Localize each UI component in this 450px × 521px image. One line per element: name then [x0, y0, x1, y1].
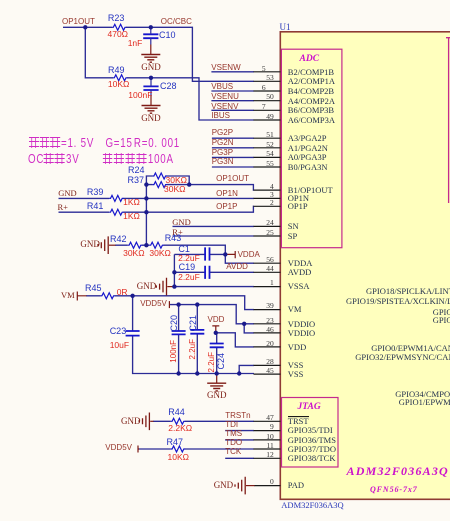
gnd text VSSA: [137, 282, 157, 291]
junction 178.6,373.5: [176, 371, 180, 375]
designator C1: [178, 245, 190, 254]
ground rot R42: [98, 236, 108, 254]
designator C19: [179, 263, 196, 272]
wire OP1P row: [59, 206, 255, 212]
junction 197.3,373.5: [195, 371, 199, 375]
IC U1 body: [280, 32, 450, 500]
junction 174.4,286.6: [172, 284, 176, 288]
wire PG3N: [212, 166, 254, 168]
power bar VDD5V: [168, 301, 170, 308]
pin 5 B2/COMP1B: [254, 71, 281, 73]
ADC section box: [281, 49, 342, 248]
pin 11 GPIO37/TDO: [254, 448, 281, 450]
ground rot PAD: [235, 477, 245, 495]
wire OP1N row: [59, 197, 255, 199]
net label VSENU: [211, 93, 239, 101]
wire VSENV: [211, 109, 254, 111]
net label AVDD: [226, 263, 248, 271]
net label OP1N: [216, 190, 238, 198]
wire OP1OUT to pin4: [189, 185, 254, 191]
wire Rplus to SP: [173, 235, 255, 237]
pin 2 OP1P: [254, 205, 281, 207]
power bar VDD: [212, 326, 219, 333]
junction 174.4,272.3: [172, 270, 176, 274]
gnd lead PAD: [246, 485, 255, 487]
power bar VDD5V lower: [138, 446, 139, 453]
value 30Kohm d: [149, 249, 170, 258]
gnd lead C10: [150, 27, 152, 44]
net label TMS: [225, 430, 242, 438]
designator C21 rot: [189, 315, 198, 332]
ground earth C28: [142, 106, 161, 114]
part type QFN56-7x7: [370, 486, 418, 494]
junction 146.4,245.2: [144, 243, 148, 247]
pin 44 AVDD: [254, 271, 281, 273]
net label Rplus sp: [172, 228, 182, 237]
gnd lead VSSA: [167, 286, 174, 288]
ground rot R44: [139, 413, 149, 431]
junction 146.4,212.2: [144, 210, 148, 214]
value 2.2Kohm: [168, 424, 192, 433]
pin 0 PAD: [254, 485, 280, 487]
wire PG3P: [212, 156, 254, 158]
value 30Kohm b: [164, 185, 185, 194]
junction 150.8,27.3: [149, 25, 153, 29]
designator R39: [87, 188, 104, 197]
designator R49: [108, 66, 125, 75]
resistor R37: [153, 182, 167, 188]
pin 51 A3/PGA2P: [254, 137, 281, 139]
net label TRSTn: [225, 412, 250, 420]
resistor R41: [109, 209, 123, 215]
resistor R47: [171, 446, 185, 452]
value 100nF rot: [170, 340, 178, 363]
gnd lead C10 red: [150, 45, 152, 55]
section title JTAG: [298, 403, 321, 413]
resistor R43: [149, 242, 163, 248]
gnd lead R42: [109, 244, 116, 246]
wire TMS: [225, 439, 254, 441]
wire R24 loop: [146, 176, 189, 185]
net label OC/CBC: [161, 18, 192, 26]
wire C19 AVDD row: [174, 271, 254, 273]
net label PG2N: [212, 139, 234, 147]
value 1Kohm a: [123, 198, 140, 207]
value 10Kohm lower: [168, 453, 189, 462]
designator R47: [167, 438, 184, 447]
pin 49 A6/COMP3A: [254, 119, 281, 121]
net label GND row39: [58, 189, 76, 198]
pin 20 VDD: [254, 346, 281, 348]
net label OP1OUT mid: [216, 175, 249, 183]
gnd text PAD: [214, 481, 234, 490]
junction 151,77.8: [149, 76, 153, 80]
designator R43: [165, 234, 182, 243]
gnd text C10: [141, 63, 161, 72]
net label PG3N: [212, 158, 234, 166]
pin 52 A1/PGA2N: [254, 147, 281, 149]
value 1Kohm b: [123, 212, 140, 221]
ground rot VSSA: [156, 278, 166, 296]
wire OP1OUT net: [63, 27, 113, 78]
power text VM: [61, 291, 75, 300]
capacitor C28: [143, 86, 158, 90]
wire OC/CBC net: [126, 27, 254, 81]
resistor R44: [171, 418, 185, 424]
pin numbers: [262, 65, 266, 73]
value 0R: [117, 288, 128, 297]
wire TCK: [225, 457, 254, 459]
net label GND sn: [172, 218, 190, 227]
value 30Kohm a: [166, 176, 187, 185]
net label IBUS: [211, 112, 230, 120]
pin 1 VSSA: [254, 286, 281, 288]
wire C23 branch: [133, 296, 179, 374]
right side pin names clipped: [366, 287, 450, 296]
net label TDO: [225, 439, 242, 447]
wire GND to SN: [173, 225, 255, 227]
pin 25 SP: [254, 235, 281, 237]
value 2.2uF rot d: [208, 352, 216, 372]
wire VSENU: [211, 100, 254, 102]
designator R23: [108, 14, 125, 23]
wire R49 out to IBUS: [127, 78, 254, 120]
value 2.2uF rot c: [189, 339, 197, 359]
value 1nF: [128, 39, 143, 48]
wire C21 stem: [196, 305, 198, 374]
pin 7 B6/COMP3B: [254, 109, 281, 111]
gnd text C28: [141, 114, 161, 123]
wire R47 TDO row: [139, 448, 255, 450]
ground earth C24: [207, 383, 226, 391]
designator R42: [110, 235, 127, 244]
power bar VM: [77, 292, 86, 301]
wire left rail: [145, 185, 147, 246]
pin 39 VM: [254, 309, 281, 311]
pin 54 A0/PGA3P: [254, 156, 281, 158]
designator R45: [85, 284, 102, 293]
pin 10 GPIO36/TMS: [254, 439, 281, 441]
annotation line1: [29, 137, 185, 149]
pin 50 A4/COMP2A: [254, 100, 281, 102]
gnd lead C24 red: [216, 374, 218, 383]
value 10Kohm: [108, 80, 129, 89]
wire C24 bottom: [216, 347, 218, 373]
wire TDI: [225, 430, 254, 432]
pin 9 GPIO35/TDI: [254, 430, 281, 432]
designator R44: [168, 408, 185, 417]
pin 55 B0/PGA3N: [254, 166, 281, 168]
pin 46 VDDIO: [254, 332, 281, 334]
wire C24 top: [216, 333, 218, 344]
junction 197.3,304.6: [195, 302, 199, 306]
net label PG3P: [212, 149, 233, 157]
gnd text R42: [80, 240, 100, 249]
designator R41: [87, 202, 104, 211]
pin names: [288, 68, 334, 77]
wire C20 stem: [178, 305, 180, 374]
designator C28: [160, 82, 177, 91]
junction 216.7,373.5: [215, 371, 219, 375]
gnd lead C28 red: [150, 96, 152, 105]
resistor R39: [109, 195, 123, 201]
pin 6 B4/COMP2B: [254, 90, 281, 92]
junction 225.3,254.4: [223, 252, 227, 256]
junction 244.2,323.8: [242, 322, 246, 326]
designator R37: [128, 176, 145, 185]
value 100nF: [128, 91, 152, 100]
capacitor C19: [205, 266, 209, 279]
net label Rplus row41: [58, 203, 68, 212]
power bar VDDA: [225, 251, 235, 258]
value 2.2uF a: [178, 254, 200, 263]
designator U1: [280, 23, 291, 32]
net label VBUS: [211, 83, 233, 91]
pin 56 VDDA: [254, 262, 281, 264]
value 470ohm: [108, 30, 129, 39]
gnd text R44: [121, 417, 141, 426]
value 10uF: [110, 341, 129, 350]
ground earth C10: [141, 55, 160, 63]
net label TDI: [225, 421, 238, 429]
capacitor C10: [143, 34, 158, 38]
resistor R23: [112, 24, 126, 30]
wire R44 TRSTn row: [153, 420, 254, 422]
wire bottom rail: [179, 365, 254, 373]
wire C1 leads: [174, 253, 225, 255]
wire R37 leads: [146, 184, 189, 186]
pin 12 GPIO38/TCK: [254, 457, 281, 459]
power text VDD5V: [140, 300, 167, 308]
capacitor C23: [126, 331, 140, 336]
junction 178.6,304.6: [176, 302, 180, 306]
wire VM row: [86, 296, 254, 310]
power text VDD5V lower: [105, 444, 132, 452]
junction 189.2,184.6: [187, 182, 191, 186]
part text ADM32F036A3Q bottom: [281, 501, 343, 510]
pin 24 SN: [254, 225, 281, 227]
junction 132.6,295.8: [130, 294, 134, 298]
capacitor C21: [190, 330, 204, 334]
capacitor C20: [172, 331, 186, 334]
designator C10: [159, 31, 176, 40]
gnd lead C28: [150, 78, 152, 96]
designator C23: [110, 327, 127, 336]
value 2.2uF b: [178, 273, 200, 282]
right section box clipped: [446, 38, 450, 203]
wire R42 R43 row: [115, 245, 254, 263]
pin 47 TRST: [254, 420, 281, 422]
capacitor C24: [210, 344, 224, 348]
junction 215.8,332.8: [214, 331, 218, 335]
pin 45 VSS: [254, 373, 281, 375]
gnd lead R44: [150, 420, 153, 422]
junction 85.3,27.3: [83, 25, 87, 29]
gnd text C24: [207, 391, 227, 400]
wire VSENW: [211, 71, 254, 73]
pin 4 B1/OP1OUT: [254, 189, 281, 191]
net label VSENV: [211, 103, 238, 111]
designator R24: [128, 166, 145, 175]
resistor R24: [153, 173, 167, 179]
TRST overline: [288, 416, 309, 418]
pin 53 A2/COMP1A: [254, 80, 281, 82]
net label VSENW: [211, 64, 240, 72]
net label TCK: [225, 448, 241, 456]
pin 23 VDDIO: [254, 323, 281, 325]
designator C24 rot: [217, 353, 226, 370]
junction 146.4,198.4: [144, 196, 148, 200]
pin 3 OP1N: [254, 197, 281, 199]
wire VDD net: [216, 333, 254, 347]
wire gnd rail C1 C19: [173, 254, 175, 286]
net label PG2P: [212, 129, 233, 137]
wire PG2P: [212, 137, 254, 139]
wire VSSA row: [174, 286, 254, 288]
pin 28 VSS: [254, 364, 281, 366]
annotation line2: [28, 153, 192, 165]
resistor R49: [113, 75, 127, 81]
power text VDD: [208, 316, 225, 324]
net label OP1OUT: [62, 18, 95, 26]
net label OP1P: [216, 203, 237, 211]
wire PG2N: [212, 147, 254, 149]
section title ADC: [300, 55, 320, 65]
resistor R42: [128, 242, 142, 248]
resistor R45: [101, 293, 115, 299]
junction 239.2,373.5: [237, 371, 241, 375]
value 30Kohm c: [123, 249, 144, 258]
JTAG section box: [282, 398, 339, 468]
designator C20 rot: [170, 315, 179, 332]
junction 146.4,184.6: [144, 182, 148, 186]
part name ADM32F036A3Q: [347, 465, 449, 477]
power text VDDA: [238, 251, 260, 259]
wire VDD5V rail: [170, 305, 254, 333]
capacitor C1: [205, 247, 209, 260]
wire VBUS: [211, 90, 254, 92]
